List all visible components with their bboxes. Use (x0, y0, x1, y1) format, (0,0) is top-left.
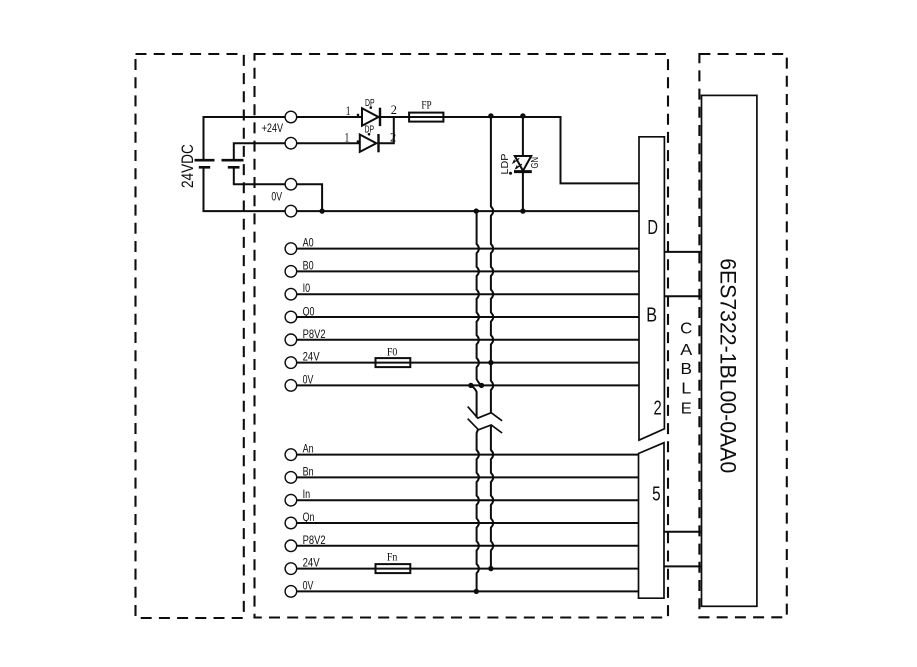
D-sub connector shell lower (pin 5) (639, 443, 665, 599)
LED LDP branch wire bottom (522, 172, 524, 212)
fuse F0 (376, 358, 411, 367)
wire row B0 (297, 270, 639, 272)
svg-text:F0: F0 (387, 345, 398, 359)
svg-text:24V: 24V (303, 556, 320, 570)
terminal A0 (285, 243, 297, 255)
wire +24V rail from battery to terminal (204, 117, 286, 160)
svg-text:Bn: Bn (303, 464, 314, 478)
terminal +24V circle 1 (285, 111, 297, 123)
svg-text:B0: B0 (303, 258, 314, 272)
cable bundle right conductor lower part (491, 425, 493, 569)
svg-text:DP: DP (365, 124, 375, 136)
diode DP D1 (362, 108, 380, 126)
svg-text:C: C (680, 321, 692, 338)
cable conductor connector to module pin row I (664, 295, 701, 297)
junction node 0V lower row / cable (474, 589, 479, 594)
svg-text:6ES7322-1BL00-0AA0: 6ES7322-1BL00-0AA0 (716, 258, 741, 473)
wire row 0V lower (297, 590, 639, 592)
svg-text:An: An (303, 442, 314, 456)
cable conductor connector to module lower 1 (664, 531, 702, 533)
svg-text:2: 2 (390, 129, 396, 144)
svg-text:FP: FP (421, 98, 431, 112)
svg-text:GN: GN (529, 157, 541, 169)
enclosure dashed box right (module) (699, 54, 786, 617)
LED LDP emission arrows (513, 158, 522, 168)
svg-text:A0: A0 (303, 236, 314, 250)
polarity dot diode D2 (368, 133, 371, 136)
wire fuse Fn to connector (410, 568, 638, 570)
wire diode D2 cathode to node 2 and up to row 1 (379, 117, 394, 143)
svg-text:1: 1 (346, 103, 351, 118)
svg-text:E: E (681, 401, 692, 418)
wire row Bn (297, 476, 639, 478)
wire row I0 (297, 293, 639, 295)
svg-text:Fn: Fn (387, 550, 398, 564)
diode DP D2 (360, 134, 379, 152)
svg-text:LDP: LDP (499, 154, 511, 175)
svg-text:5: 5 (652, 484, 661, 506)
wire row 24V lower with fuse Fn (297, 568, 376, 570)
terminal 0V circle 4 (285, 205, 297, 217)
terminal 0V top group (285, 380, 297, 392)
D-sub connector shell upper (pins D B 2) (639, 137, 664, 440)
terminal B0 (285, 266, 297, 278)
battery G2 plates (222, 160, 244, 167)
svg-text:B: B (681, 361, 693, 378)
terminal 24V (285, 357, 297, 369)
terminal Qn (285, 517, 297, 529)
terminal 24V lower (285, 563, 297, 575)
fuse FP (409, 113, 443, 122)
terminal +24V circle 2 (285, 137, 297, 149)
junction node 0V row / cable 0V right (479, 383, 484, 388)
cable bundle left conductor (0V) with crossover hops (477, 211, 482, 385)
svg-text:2: 2 (654, 398, 662, 420)
terminal 0V circle 3 (285, 178, 297, 190)
wire battery G2 negative to 0V terminal (234, 167, 285, 184)
svg-text:A: A (680, 342, 692, 359)
battery G1 24VDC plates (195, 160, 215, 167)
svg-text:24V: 24V (303, 350, 320, 364)
terminal In (285, 494, 297, 506)
wire row Qn (297, 522, 639, 524)
cable conductor connector to module pin row A (664, 251, 701, 253)
wire fuse FP to corner, down to connector pin D row (443, 117, 639, 183)
wire row Q0 (297, 316, 639, 318)
cable break symbol upper zigzag (468, 407, 502, 421)
junction node 0V rail / cable 0V (474, 208, 479, 213)
junction node top rail / LED (520, 113, 525, 118)
polarity dot diode D2 anode (357, 140, 360, 143)
junction node 0V rail / LED cathode (520, 208, 525, 213)
svg-text:P8V2: P8V2 (303, 533, 326, 547)
junction node 24V lower row / cable (488, 566, 493, 571)
LED LDP cathode bar (514, 170, 532, 173)
junction node 0V row / cable 0V left (468, 383, 473, 388)
cable bundle left conductor lower part (471, 385, 477, 417)
svg-text:I0: I0 (303, 281, 311, 295)
LED LDP branch wire top (522, 116, 524, 156)
svg-text:L: L (681, 381, 691, 398)
wire row P8V2 (297, 339, 639, 341)
svg-text:Q0: Q0 (303, 304, 315, 318)
svg-text:+24V: +24V (262, 121, 284, 135)
cable conductor connector to module lower 2 (664, 565, 702, 567)
terminal Q0 (285, 311, 297, 323)
terminal An (285, 449, 297, 461)
enclosure dashed box left (power supply) (136, 54, 244, 618)
svg-text:P8V2: P8V2 (303, 327, 326, 341)
wire row An (297, 454, 639, 456)
wire row 24V with fuse F0 (297, 362, 376, 364)
wire 0V terminal right side down to 0V rail (297, 184, 322, 211)
junction node 0V terminal drop on 0V rail (319, 208, 324, 213)
svg-text:Qn: Qn (303, 510, 315, 524)
polarity dot diode D1 (370, 106, 373, 109)
wire row In (297, 499, 639, 501)
junction node top rail / cable 24V (488, 113, 493, 118)
svg-text:In: In (303, 487, 311, 501)
fuse Fn (376, 564, 411, 573)
terminal P8V2 (285, 334, 297, 346)
wire row P8V2 lower (297, 545, 639, 547)
svg-text:D: D (647, 217, 658, 239)
svg-text:24VDC: 24VDC (178, 144, 197, 188)
wire battery negative to 0V rail (204, 167, 286, 211)
enclosure dashed box middle (front connector) (255, 54, 669, 618)
wire row A0 (297, 248, 639, 250)
svg-text:B: B (646, 305, 657, 327)
wire 0V rail to connector (297, 210, 639, 212)
wire battery G2 positive to +24V terminal 2 (234, 143, 285, 160)
module 6ES7322 outline box (702, 95, 757, 606)
svg-text:DP: DP (365, 97, 375, 109)
junction node 24V row / cable 24V (488, 360, 493, 365)
wire +24V terminal 2 to diode D2 anode (297, 142, 360, 144)
svg-text:2: 2 (391, 102, 397, 117)
svg-text:0V: 0V (303, 578, 314, 592)
cable bundle right conductor (24V) with crossover hops (491, 116, 493, 413)
wire diode D1 cathode to fuse FP (380, 116, 409, 118)
wire fuse F0 to connector (410, 362, 639, 364)
LED LDP triangle (515, 156, 531, 171)
cable break symbol lower zigzag (468, 419, 502, 433)
wire +24V rail terminal to diode D1 anode (297, 116, 362, 118)
terminal I0 (285, 288, 297, 300)
svg-text:0V: 0V (271, 189, 282, 203)
terminal P8V2 lower (285, 540, 297, 552)
wire row 0V top group (297, 384, 639, 386)
terminal 0V lower (285, 586, 297, 598)
polarity dot diode D1 anode (357, 114, 360, 117)
svg-text:0V: 0V (303, 372, 314, 386)
polarity dot LED LDP (509, 172, 512, 175)
svg-text:1: 1 (345, 130, 350, 145)
terminal Bn (285, 472, 297, 484)
